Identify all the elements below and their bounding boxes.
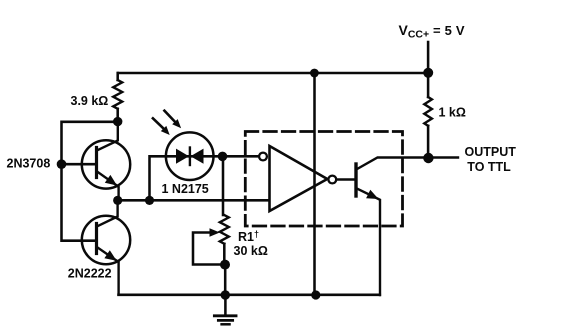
svg-text:3.9 kΩ: 3.9 kΩ	[71, 94, 109, 108]
transistor Q1 2N3708	[82, 122, 130, 201]
power VCC lead	[427, 42, 430, 73]
wire base bus from node A to Q1/Q2 bases	[62, 122, 118, 241]
svg-text:30 kΩ: 30 kΩ	[234, 244, 268, 258]
node C junction dot (Q1 emitter / Q2 collector)	[113, 196, 122, 205]
output bubble	[328, 176, 336, 184]
inverting input bubble	[259, 153, 267, 161]
node D junction dot (photodiode return)	[145, 196, 154, 205]
svg-text:1 N2175: 1 N2175	[162, 182, 209, 196]
ground symbol	[214, 295, 236, 324]
node I junction dot bottom rail / IC drop	[311, 290, 320, 299]
light arrow 1 into D1	[153, 118, 170, 135]
node E junction dot at D1 cathode	[218, 152, 228, 162]
IC dashed package outline U1	[245, 132, 402, 227]
light arrow 2 into D1	[164, 111, 181, 129]
node B junction dot at Q1 base	[57, 159, 67, 169]
node G junction dot on top rail	[310, 69, 319, 78]
svg-text:1 kΩ: 1 kΩ	[439, 105, 466, 119]
wire Q1 base lead	[62, 163, 95, 166]
wire bottom rail	[119, 294, 380, 297]
node F junction dot R1 wiper tie	[220, 260, 230, 270]
wire R1 to ground rail	[224, 265, 227, 295]
resistor R2 3.9 kOhm	[113, 73, 122, 122]
svg-text:TO TTL: TO TTL	[467, 160, 511, 174]
wire from node E down to R1	[222, 157, 225, 216]
wire photodiode left lead	[150, 156, 167, 200]
resistor R3 1 kOhm	[424, 73, 432, 158]
node A junction dot below R2	[113, 117, 122, 126]
wire top rail	[118, 72, 428, 75]
node H junction dot bottom rail / ground	[221, 290, 230, 299]
photodiode D1 1N2175	[166, 132, 259, 180]
transistor Q2 2N2222	[82, 200, 130, 294]
wire node line to comparator lower input	[118, 199, 269, 202]
potentiometer R1 30 kOhm	[193, 215, 229, 265]
node K junction dot output	[423, 153, 433, 163]
transistor Q3 output	[337, 158, 459, 296]
svg-text:OUTPUT: OUTPUT	[465, 145, 517, 159]
wire IC supply drop (top rail to bottom rail)	[313, 73, 316, 295]
node J junction dot VCC / top rail	[423, 68, 433, 78]
svg-text:2N2222: 2N2222	[68, 267, 112, 281]
comparator A1 triangle	[270, 146, 328, 211]
svg-text:2N3708: 2N3708	[7, 156, 51, 170]
